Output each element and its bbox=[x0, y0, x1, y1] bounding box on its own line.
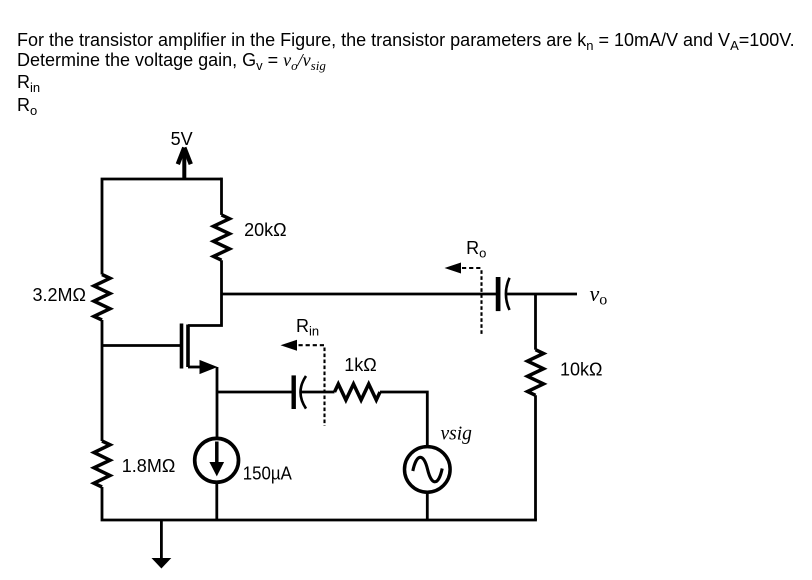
svg-text:10kΩ: 10kΩ bbox=[560, 360, 602, 380]
svg-text:5V: 5V bbox=[171, 129, 193, 149]
svg-text:3.2MΩ: 3.2MΩ bbox=[33, 285, 86, 305]
svg-text:1.8MΩ: 1.8MΩ bbox=[122, 456, 175, 476]
svg-text:vo: vo bbox=[590, 281, 608, 309]
svg-text:Ro: Ro bbox=[466, 238, 486, 261]
svg-text:1kΩ: 1kΩ bbox=[344, 355, 376, 375]
svg-text:20kΩ: 20kΩ bbox=[244, 220, 286, 240]
svg-text:vsig: vsig bbox=[441, 424, 473, 445]
svg-text:Rin: Rin bbox=[296, 316, 319, 339]
svg-text:150µA: 150µA bbox=[243, 464, 292, 484]
